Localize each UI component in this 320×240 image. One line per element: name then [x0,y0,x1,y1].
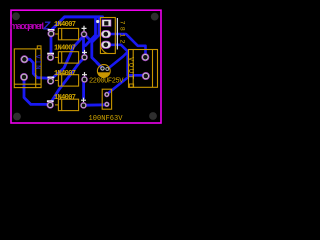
connector J2 pin1 [142,54,149,61]
regulator U1 pin1 [102,20,111,27]
wire vertical pair left [86,19,96,46]
diode D1 body [55,28,79,39]
diode D4 body [55,99,79,110]
svg-text:2200UF25V: 2200UF25V [89,78,124,86]
board outline [11,10,161,123]
wire D1 left pad to 7812 pin1 top rail [52,17,103,31]
connector J1 VIN body [14,46,41,88]
connector J1 pin1 [21,56,28,63]
wire 7812 pin3 to VOUT pin2 gnd rail [111,45,144,76]
diode D2 body [55,52,79,63]
diode D2 left pad [47,53,54,61]
wire D1 right pad stub [85,35,91,41]
mounting hole bottom-right [149,112,157,120]
diode D1 left pad [48,29,55,37]
svg-text:1N4007: 1N4007 [54,70,76,78]
wire C1 right pad up-right [108,53,128,70]
svg-text:VOUT: VOUT [126,57,134,79]
svg-text:VIN: VIN [33,55,41,70]
svg-text:1N4007: 1N4007 [54,94,76,102]
wire D3 left pad to D1 right pad long diagonal [53,36,84,78]
capacitor C2 pin1 [104,92,109,97]
connector J2 VOUT body [129,50,158,88]
via near 7812 pin1 [96,20,99,23]
diode D4 right pad [81,98,87,109]
mounting hole top-left [12,12,20,20]
wire D4 right pad to C2 pin2 [85,103,105,106]
diode D3 left pad [47,77,54,85]
wire D1 left - D2 left [50,34,53,56]
connector J1 pin2 [20,73,27,80]
capacitor C1 pin2 [105,67,109,71]
svg-text:100NF63V: 100NF63V [89,115,124,123]
mounting hole bottom-left [13,113,21,121]
wire 7812 pin2 to VOUT pin1 [111,34,146,56]
svg-text:1N4007: 1N4007 [54,21,76,29]
diode D4 left pad [47,100,54,108]
capacitor C1 body [97,65,110,78]
regulator U1 body [100,18,115,54]
connector J2 pin2 [142,72,149,79]
svg-text:maoqanerl: maoqanerl [10,21,44,31]
regulator U1 pin2 [101,30,111,37]
wire D1-D2 right pads [82,36,85,53]
wire D3 right pad to D4 right pad [82,81,85,98]
regulator U1 pin3 [101,41,111,48]
regulator U1 white line [116,18,118,50]
wire gnd branch to C2 pin1 [107,78,128,95]
wire C1 left pad from tangle [97,63,103,68]
diode D1 right pad [81,26,87,37]
capacitor C1 pin1 [100,66,104,70]
diode D3 body [55,75,79,86]
wire vertical pair right [92,19,102,68]
mounting hole top-right [151,13,159,21]
wire VIN pin1 to D3 left pad [25,59,48,78]
diode D2 right pad [82,50,88,60]
capacitor C2 pin2 [104,102,109,107]
wire VIN pin2 to D4 left pad [24,78,48,104]
wire D4 left pad to D2 right pad long diagonal [51,58,85,103]
diode D3 right pad [82,72,88,82]
capacitor C2 body [102,89,111,109]
